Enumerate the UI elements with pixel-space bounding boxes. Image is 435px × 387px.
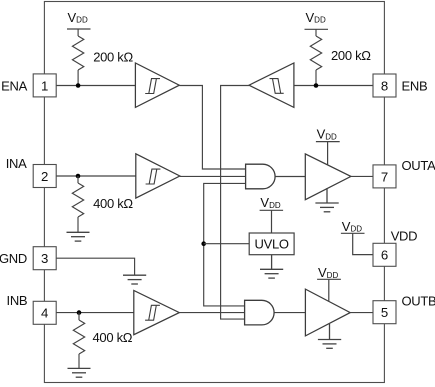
Schmitt trigger INB: [134, 291, 180, 335]
wire buffer B out to pin5: [350, 312, 373, 314]
ground under R-INA: [67, 232, 90, 241]
ground buffer B: [318, 324, 341, 348]
IC package boundary: [44, 2, 384, 383]
buffer U-B (output driver): [305, 289, 350, 336]
svg-text:VDD: VDD: [260, 195, 280, 210]
svg-text:VDD: VDD: [391, 229, 418, 244]
pin 4 box: [33, 301, 56, 324]
pin 7 box: [373, 165, 396, 188]
Schmitt trigger INA: [136, 154, 180, 198]
hysteresis glyph INB: [145, 305, 160, 320]
resistor R-ENA 200k pull-up: [72, 29, 83, 86]
wire UVLO out: [204, 243, 250, 245]
resistor R-INA 400k pull-down: [72, 176, 83, 232]
svg-text:VDD: VDD: [68, 10, 88, 25]
VDD symbol at pin6: [341, 233, 373, 254]
wire INA row: pin2 to Schmitt INA: [56, 175, 136, 177]
svg-text:6: 6: [381, 248, 388, 263]
wire buffer A out to pin7: [351, 175, 373, 177]
svg-text:OUTA: OUTA: [402, 158, 435, 173]
Schmitt trigger ENB (points left): [249, 63, 294, 107]
wire INB row: pin4 to Schmitt INB: [56, 312, 134, 314]
svg-text:400 kΩ: 400 kΩ: [93, 196, 133, 211]
svg-text:200 kΩ: 200 kΩ: [93, 50, 133, 65]
VDD symbol above R-ENB: [305, 28, 329, 30]
ground buffer A: [315, 188, 338, 212]
hysteresis glyph INA: [146, 169, 161, 184]
ground pin3: [123, 275, 146, 284]
svg-text:400 kΩ: 400 kΩ: [93, 330, 133, 345]
pin 3 box: [33, 247, 56, 270]
svg-text:INB: INB: [7, 293, 28, 308]
svg-text:VDD: VDD: [317, 127, 337, 142]
junction dot pin8: [314, 83, 319, 88]
svg-text:4: 4: [41, 306, 48, 321]
junction dot pin4: [77, 310, 82, 315]
svg-text:7: 7: [381, 169, 388, 184]
buffer U-A (output driver): [305, 154, 351, 200]
wire ENA row: pin1 to Schmitt A: [56, 85, 135, 87]
UVLO bus vertical and taps: [204, 183, 246, 306]
pin 5 box: [373, 301, 396, 324]
junction dot pin1: [76, 83, 81, 88]
svg-text:8: 8: [381, 78, 388, 93]
wire Schmitt INA out to AND A middle input: [180, 175, 246, 177]
svg-text:UVLO: UVLO: [254, 237, 288, 252]
AND gate A: [246, 164, 276, 189]
hysteresis glyph ENA: [145, 79, 160, 94]
wire Schmitt A out to AND A top input: [179, 86, 245, 170]
hysteresis glyph ENB: [270, 79, 284, 94]
VDD symbol above UVLO: [260, 210, 284, 233]
svg-text:5: 5: [381, 305, 388, 320]
svg-text:1: 1: [41, 78, 48, 93]
ground under UVLO: [260, 255, 283, 278]
pin 1 box: [33, 74, 56, 97]
wire AND A out to buffer A: [275, 176, 305, 178]
pin 2 box: [33, 165, 56, 188]
resistor R-INB 400k pull-down: [73, 313, 84, 369]
svg-text:GND: GND: [0, 251, 27, 266]
junction dot UVLO: [201, 241, 206, 246]
ground under R-INB: [68, 368, 91, 377]
pin 8 box: [373, 74, 396, 97]
wire pin8 to Schmitt ENB input: [294, 85, 373, 87]
AND gate B: [245, 300, 275, 325]
wire ENB Schmitt out to AND B bottom input: [221, 86, 249, 320]
wire AND B out to buffer B: [274, 312, 305, 314]
VDD symbol buffer A: [316, 142, 340, 165]
svg-text:INA: INA: [6, 156, 27, 171]
UVLO block: [249, 233, 294, 255]
resistor R-ENB 200k pull-up: [310, 29, 321, 85]
pin 6 box: [373, 243, 396, 266]
svg-text:3: 3: [41, 251, 48, 266]
svg-text:2: 2: [41, 169, 48, 184]
svg-text:VDD: VDD: [318, 265, 338, 280]
wire Schmitt INB out to AND B middle input: [179, 312, 244, 314]
VDD symbol above R-ENA: [67, 28, 91, 30]
svg-text:VDD: VDD: [306, 10, 326, 25]
svg-text:200 kΩ: 200 kΩ: [331, 48, 371, 63]
svg-text:ENB: ENB: [402, 78, 428, 93]
wire GND pin3 to ground: [56, 258, 134, 275]
svg-text:OUTB: OUTB: [402, 294, 435, 309]
svg-text:ENA: ENA: [1, 78, 27, 93]
VDD symbol buffer B: [317, 279, 341, 301]
Schmitt trigger ENA: [135, 63, 179, 107]
junction dot pin2: [76, 174, 81, 179]
svg-text:VDD: VDD: [342, 219, 362, 234]
